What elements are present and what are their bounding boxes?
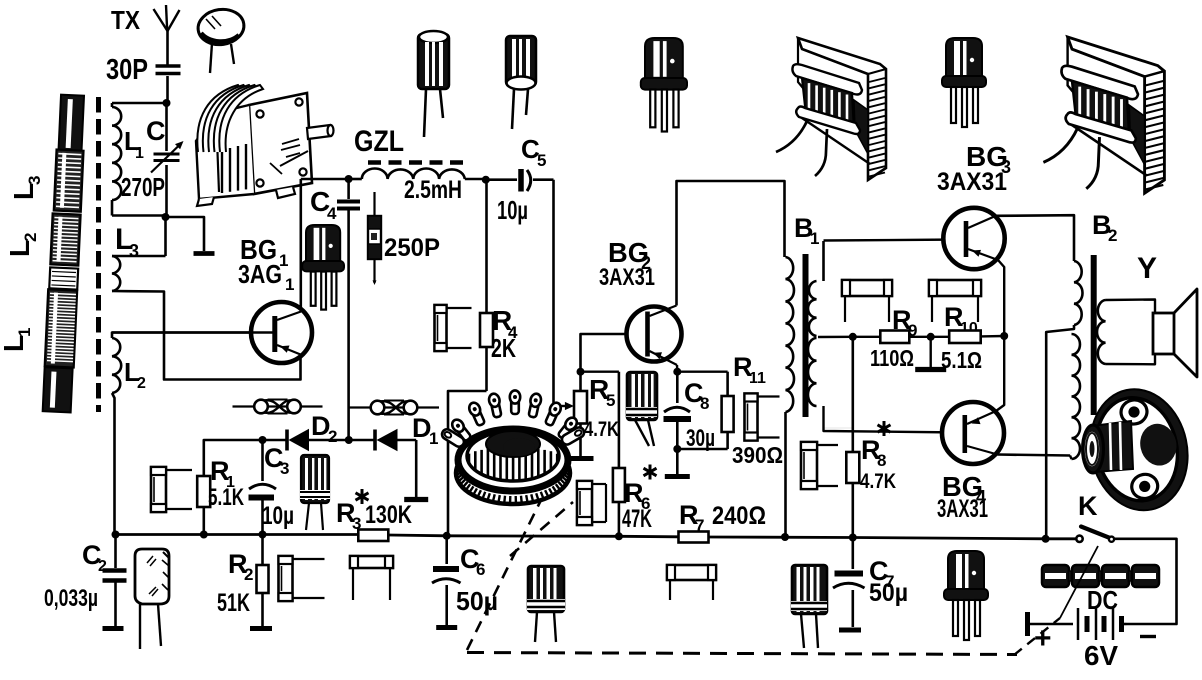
label L2 — [124, 357, 146, 392]
wire tank right side — [165, 103, 168, 217]
wire B2 center tap down to switch — [1046, 325, 1074, 539]
label L3 — [115, 223, 139, 261]
svg-text:C: C — [146, 116, 166, 146]
resistor R2 — [257, 535, 269, 627]
svg-text:1: 1 — [429, 429, 438, 448]
label R5 — [589, 374, 615, 410]
node: rail junction (R1) — [200, 531, 208, 539]
wire BG1 collector riser — [299, 179, 302, 312]
transformer B2 primary lower — [1070, 334, 1080, 459]
svg-text:110Ω: 110Ω — [870, 345, 914, 371]
svg-text:5.1K: 5.1K — [208, 484, 244, 511]
node: R9/R10 junction — [927, 333, 935, 341]
pictorial transformer photo (B2) — [1043, 37, 1164, 193]
svg-text:270P: 270P — [121, 172, 165, 202]
label C8 — [684, 378, 709, 413]
svg-text:4: 4 — [327, 204, 337, 223]
node: center tap / R8 junction — [849, 333, 857, 341]
battery DC 6V symbol — [1028, 608, 1127, 640]
label R1 — [210, 456, 235, 491]
transistor BG2 — [627, 306, 682, 366]
svg-text:2: 2 — [244, 565, 253, 584]
pictorial transistor photo (above BG3) — [942, 38, 986, 127]
node: GZL left junction — [345, 175, 353, 183]
ground bar (C8) — [665, 474, 690, 479]
pictorial IF transformer can (oscillator coil) — [440, 390, 586, 505]
label 50u (C6) — [456, 586, 498, 616]
svg-text:6: 6 — [476, 560, 485, 579]
wire BG1 base — [112, 331, 273, 334]
wire B1 secondary bottom to BG4 base — [824, 406, 963, 433]
rotated label L3 on rod — [8, 176, 44, 200]
svg-text:5: 5 — [537, 151, 546, 170]
svg-text:2: 2 — [137, 375, 146, 392]
wire L2 bottom down to rail — [112, 393, 115, 535]
svg-text:1: 1 — [15, 328, 34, 337]
node: detector junction (C4 line) — [345, 436, 353, 444]
pictorial resistor photo (390ohm) — [745, 394, 780, 441]
pictorial resistor photo (horizontal, below R3) — [350, 556, 393, 600]
ground (R2) — [250, 626, 272, 631]
svg-text:GZL: GZL — [354, 125, 404, 158]
svg-text:1: 1 — [285, 275, 294, 294]
ferrite rod antenna (pictorial) with windings L1 L2 L3 — [43, 94, 86, 412]
svg-text:50µ: 50µ — [869, 579, 908, 607]
dashed core line of antenna coil — [96, 97, 101, 412]
inductor GZL 2.5mH — [349, 168, 486, 179]
label 6V — [1084, 640, 1118, 671]
label 0,033u — [44, 585, 98, 612]
wire tank to L3 — [164, 217, 167, 256]
label C3 — [264, 443, 289, 478]
transformer B1 core — [803, 254, 809, 417]
coil L3 — [112, 256, 120, 291]
svg-text:3AX31: 3AX31 — [937, 495, 988, 523]
label BG3 — [966, 141, 1011, 177]
wire to ground stub — [166, 217, 205, 251]
label 51K — [217, 589, 250, 617]
wire center tap to R9 — [853, 336, 881, 338]
dashed boundary line (bottom) — [467, 653, 1017, 655]
pictorial electrolytic (near C3) — [300, 455, 330, 530]
label 3AX31 (BG2) — [599, 264, 655, 291]
label C4 — [310, 186, 337, 223]
transformer B2 core — [1091, 255, 1097, 415]
pictorial dogbone resistor photo (left) — [233, 400, 323, 414]
label Y — [1137, 252, 1157, 285]
antenna TX — [154, 5, 180, 65]
label BG2 — [608, 237, 651, 273]
label 30u (C8) — [686, 425, 715, 452]
wire BG2 collector to B1 primary — [677, 181, 785, 306]
label R6 — [624, 465, 657, 514]
label R11 — [733, 352, 766, 387]
label + — [1034, 622, 1052, 655]
svg-text:0,033µ: 0,033µ — [44, 585, 98, 612]
svg-text:50µ: 50µ — [456, 586, 498, 616]
label 3AX31 (BG3) — [937, 168, 1007, 196]
resistor R8 — [846, 337, 859, 538]
wire R10 to emitters — [981, 335, 1005, 338]
ground (C7) — [839, 628, 861, 633]
label R3 and 130K — [336, 489, 412, 533]
label 5.1K — [208, 484, 244, 511]
svg-text:3AX31: 3AX31 — [937, 168, 1007, 196]
svg-text:3: 3 — [129, 241, 139, 261]
label 250P — [384, 234, 440, 262]
pictorial loudspeaker (magnet view) — [1079, 380, 1198, 519]
label B1 — [794, 213, 819, 248]
label 47K — [622, 505, 652, 533]
diode D2 — [263, 429, 349, 451]
label 10u (C5) — [497, 195, 528, 225]
label D2 — [311, 411, 337, 446]
resistor R6 — [581, 372, 625, 537]
capacitor C4 — [337, 179, 360, 440]
transformer B2 secondary — [1097, 300, 1106, 364]
pictorial dogbone resistor photo (right) — [349, 401, 439, 415]
label 2K — [491, 333, 516, 363]
svg-text:5.1Ω: 5.1Ω — [941, 347, 982, 373]
svg-text:5: 5 — [606, 391, 615, 410]
transformer B1 primary — [786, 257, 795, 537]
svg-text:2: 2 — [21, 233, 40, 242]
svg-text:6V: 6V — [1084, 640, 1118, 671]
label 5.1ohm — [941, 347, 982, 373]
speaker Y — [1153, 289, 1197, 377]
ground (C6) — [436, 625, 457, 630]
wire BG3 collector to B2 — [996, 215, 1074, 261]
wire B1 center tap — [818, 336, 853, 339]
node: BG2 base junction — [577, 368, 585, 376]
capacitor 30P — [156, 66, 181, 102]
label R7 and 240ohm — [679, 500, 766, 535]
pictorial electrolytic (bottom middle) — [527, 566, 565, 642]
svg-text:10µ: 10µ — [262, 502, 294, 530]
pictorial transistor photo (near BG1) — [302, 225, 344, 310]
label TX — [111, 5, 141, 35]
wire junction to ground — [930, 337, 932, 367]
wire L3 top — [112, 255, 166, 258]
variable capacitor tuning gang (pictorial) — [196, 85, 334, 206]
rotated label L1 on rod — [0, 328, 34, 352]
svg-text:130K: 130K — [365, 501, 412, 529]
svg-text:+: + — [1034, 622, 1052, 655]
svg-text:250P: 250P — [384, 234, 440, 262]
node: emitter junction — [1000, 332, 1008, 340]
label 4.7K (R8) — [860, 470, 896, 493]
wire C5 down to volume pot — [552, 180, 555, 406]
resistor R7 (series in rail) — [679, 532, 709, 543]
capacitor C7 (electrolytic) — [833, 538, 865, 628]
label 50u (C7) — [869, 579, 908, 607]
pictorial resistor photo (near R1) — [151, 467, 192, 512]
transistor BG1 — [251, 302, 312, 363]
coil L1 — [112, 103, 121, 216]
svg-text:1: 1 — [810, 229, 819, 248]
transformer B2 primary upper — [1074, 261, 1083, 325]
pictorial transistor photo (top middle) — [641, 38, 687, 132]
pictorial resistor photo (near R5 bottom) — [577, 481, 606, 525]
ground (R9/R10) — [915, 367, 946, 372]
coil L2 — [112, 333, 273, 394]
wire tank top — [112, 102, 167, 105]
resistor R1 — [197, 476, 210, 535]
label 390ohm — [732, 442, 783, 468]
label L1 — [124, 126, 144, 162]
label C7 — [869, 556, 894, 591]
svg-text:TX: TX — [111, 5, 141, 35]
svg-text:2K: 2K — [491, 333, 516, 363]
node: D2 left junction — [259, 436, 267, 444]
pictorial battery cells — [1042, 565, 1159, 587]
node: BG2 emitter junction — [673, 365, 681, 376]
label DC — [1087, 585, 1118, 615]
capacitor C2 — [103, 535, 127, 627]
capacitor C6 (electrolytic) — [432, 536, 461, 625]
node: C8/R11 bottom junction — [673, 445, 681, 453]
capacitor C5 (electrolytic, series) — [486, 169, 554, 192]
svg-text:2: 2 — [328, 427, 337, 446]
pictorial resistor photo (below rail near R7) — [667, 565, 716, 600]
node: rail junction (R8/C7) — [849, 534, 857, 542]
pictorial resistor photo (above R10) — [929, 280, 981, 322]
leader line from C to tuning gang — [280, 151, 308, 166]
svg-text:47K: 47K — [622, 505, 652, 533]
wire main bottom rail — [115, 535, 1077, 539]
ground (D1) — [404, 497, 428, 502]
dashed leader to battery — [1014, 546, 1098, 655]
dashed leader from can to bottom line — [467, 500, 573, 650]
pictorial transistor photo (bottom right) — [944, 551, 988, 640]
pictorial resistor photo (near R4) — [435, 305, 472, 351]
label 10u (C3) — [262, 502, 294, 530]
label R8 — [861, 421, 891, 470]
transformer B1 secondary — [808, 241, 853, 428]
label 4.7K (R5) — [584, 418, 619, 441]
node: rail junction (B1 primary) — [781, 533, 789, 541]
wire B2 secondary to speaker bottom — [1106, 354, 1156, 364]
ground (tank) — [194, 251, 215, 256]
svg-text:51K: 51K — [217, 589, 250, 617]
node: antenna/tank junction — [163, 99, 171, 107]
transistor BG3 — [943, 208, 1004, 269]
wire R4 to rail — [448, 391, 487, 536]
resistor R10 — [949, 331, 981, 344]
wire BG3 emitter down — [998, 260, 1004, 336]
pictorial tubular capacitor 250P — [368, 192, 381, 285]
label 110ohm — [870, 345, 914, 371]
svg-text:2.5mH: 2.5mH — [404, 176, 462, 204]
svg-text:4.7K: 4.7K — [584, 418, 619, 441]
wire switch to battery — [1114, 539, 1177, 624]
switch K — [1076, 527, 1114, 543]
svg-text:3: 3 — [280, 459, 289, 478]
wire tank bottom — [112, 214, 166, 217]
node: rail junction (L2/C2) — [112, 531, 120, 539]
label 2.5mH — [404, 176, 462, 204]
node: tank bottom junction — [162, 213, 170, 221]
svg-text:3AG: 3AG — [238, 259, 282, 289]
transistor BG4 — [942, 402, 1004, 464]
wire B1 secondary top to BG3 base — [824, 240, 964, 241]
svg-text:240Ω: 240Ω — [712, 502, 766, 530]
label R4 — [492, 305, 518, 342]
pictorial transformer photo (B1) — [776, 38, 886, 180]
label C2 — [82, 540, 107, 575]
label C (variable capacitor) — [146, 116, 166, 146]
variable capacitor C 270P — [151, 141, 184, 173]
label B2 — [1092, 210, 1117, 245]
capacitor C3 (electrolytic) — [249, 440, 277, 535]
capacitor C8 (electrolytic) — [664, 372, 692, 474]
label D1 — [412, 413, 438, 448]
wire R9 to R10 — [909, 336, 949, 338]
pictorial electrolytic photo (top right) — [506, 36, 536, 129]
wire L3 bottom to emitter return — [112, 291, 301, 380]
node: GZL right junction — [482, 176, 490, 184]
label C6 — [460, 544, 485, 579]
label R10 — [944, 302, 978, 337]
label 270P — [121, 172, 165, 202]
label GZL — [354, 125, 404, 158]
wire BG2 base — [581, 334, 646, 372]
wire BG4 collector to B2 — [998, 455, 1071, 456]
pictorial resistor photo (near R8) — [801, 442, 838, 489]
label K — [1078, 491, 1098, 521]
ground bar (R5) — [569, 456, 594, 461]
svg-text:DC: DC — [1087, 585, 1118, 615]
svg-text:10µ: 10µ — [497, 195, 528, 225]
dashed core of GZL choke — [368, 160, 470, 165]
svg-text:11: 11 — [749, 370, 766, 387]
wire detector to R1 — [204, 440, 263, 476]
label 3AX31 (BG4) — [937, 495, 988, 523]
wire B2 secondary to speaker top — [1106, 300, 1156, 314]
label BG4 — [942, 471, 986, 507]
node: rail junction (R4/C6) — [443, 532, 451, 540]
wire base node to R6 — [581, 371, 619, 373]
pictorial film capacitor (near C2) — [135, 549, 169, 649]
svg-text:3: 3 — [25, 176, 44, 185]
label minus — [1140, 635, 1156, 638]
rotated label L2 on rod — [4, 233, 40, 257]
pictorial resistor photo (below rail left) — [279, 556, 325, 601]
label BG1 — [240, 234, 288, 270]
pictorial electrolytic (near C8) — [626, 372, 657, 446]
pictorial resistor photo (above R9) — [842, 280, 892, 322]
resistor R5 (volume control) — [574, 372, 587, 456]
svg-text:4.7K: 4.7K — [860, 470, 896, 493]
label 3AG1 — [238, 259, 294, 294]
wire BG4 emitter up — [996, 336, 1004, 411]
resistor R11 — [677, 372, 733, 449]
resistor R9 — [880, 331, 909, 344]
resistor R4 — [480, 180, 493, 391]
wire wiper arrow to R5 — [554, 402, 575, 410]
wire emitter to R11 — [677, 371, 727, 373]
svg-text:8: 8 — [700, 394, 709, 413]
disc ceramic capacitor (pictorial) — [196, 6, 246, 73]
label 30P — [106, 54, 148, 86]
label R9 — [892, 305, 917, 340]
node: rail junction (C3/R2) — [259, 531, 267, 539]
pictorial electrolytic (near C7) — [791, 565, 827, 648]
svg-text:2: 2 — [1108, 226, 1117, 245]
label C5 — [521, 134, 546, 170]
pictorial electrolytic photo (top left) — [418, 31, 449, 137]
node: rail junction (B2 CT / switch) — [1042, 535, 1050, 543]
wire collector to GZL junction — [301, 178, 349, 181]
node: rail junction (R6) — [615, 532, 623, 540]
svg-text:Y: Y — [1137, 252, 1157, 285]
svg-text:30P: 30P — [106, 54, 148, 86]
svg-text:K: K — [1078, 491, 1098, 521]
label R2 — [228, 549, 253, 584]
svg-text:3AX31: 3AX31 — [599, 264, 655, 291]
svg-text:390Ω: 390Ω — [732, 442, 783, 468]
wire D1 to ground — [415, 440, 418, 497]
svg-text:1: 1 — [135, 145, 144, 162]
resistor R3 (series in rail) — [358, 530, 388, 542]
diode D1 — [349, 429, 416, 451]
ground (C2) — [103, 626, 124, 631]
svg-text:8: 8 — [877, 451, 886, 470]
